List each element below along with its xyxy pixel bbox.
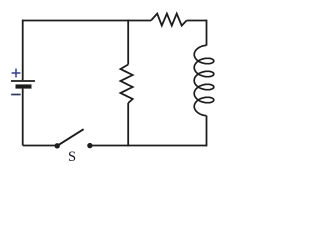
- wire left: [22, 20, 24, 81]
- battery label +: [12, 69, 21, 78]
- battery B1 plate thick (-): [16, 84, 32, 88]
- wire middle branch upper: [127, 20, 129, 65]
- battery B1 plate long (+): [11, 80, 35, 82]
- wire right branch upper: [206, 20, 208, 46]
- wire top-right: [187, 20, 207, 22]
- wire bottom-left: [23, 145, 57, 147]
- switch S terminal dot right: [87, 143, 92, 148]
- wire left-lower: [22, 89, 24, 146]
- switch label S: [66, 149, 78, 166]
- battery label -: [11, 94, 20, 96]
- wire top: [23, 20, 151, 22]
- inductor L1 coil: [194, 45, 214, 115]
- wire bottom-right: [90, 145, 207, 147]
- switch S terminal dot left: [55, 143, 60, 148]
- wire right branch lower: [206, 116, 208, 147]
- resistor R2 (middle): [121, 65, 133, 104]
- resistor R1 (top): [151, 14, 187, 26]
- wire middle branch lower: [127, 103, 129, 146]
- switch S blade: [57, 129, 83, 146]
